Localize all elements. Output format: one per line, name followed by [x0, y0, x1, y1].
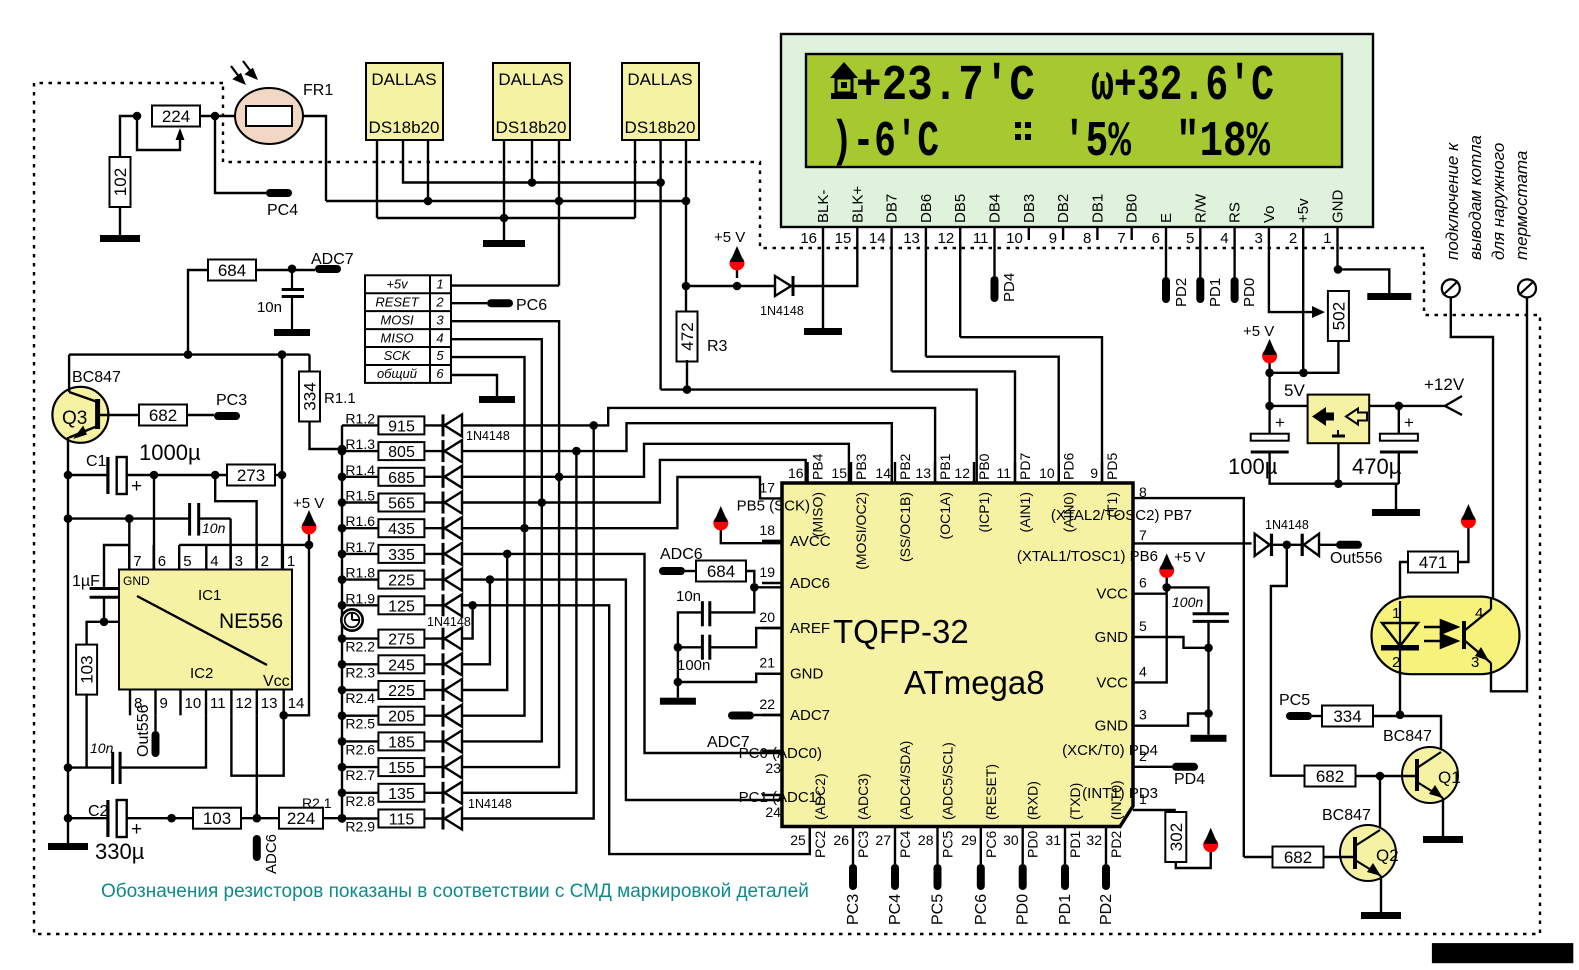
wire pin1 PD3 to 302 — [1133, 809, 1176, 811]
LCD pin 9 DB2 — [1049, 194, 1072, 247]
svg-text:273: 273 — [237, 466, 265, 485]
ATmega8 pin 32 PD2 — [1086, 780, 1124, 858]
node aref filter gnd1 — [674, 643, 683, 652]
svg-text:20: 20 — [759, 609, 775, 625]
ATmega8 pin 23 PC0 (ADC0) — [739, 745, 822, 776]
ATmega8 pin 30 PD0 — [1003, 781, 1041, 858]
svg-text:24: 24 — [765, 804, 781, 820]
svg-text:TQFP-32: TQFP-32 — [833, 613, 969, 650]
ground under 102 — [100, 235, 140, 242]
svg-text:MOSI: MOSI — [380, 312, 414, 327]
NE556 pin 7 — [128, 545, 130, 570]
ISP connector header — [365, 275, 451, 383]
ATmega8 pin 5 GND — [1095, 618, 1147, 646]
wire RS to PD0 — [1233, 240, 1235, 277]
wire MISO down to ladder — [451, 339, 542, 502]
DS18B20 sensor U4 box — [622, 63, 699, 140]
wire DS1 gnd pin — [376, 140, 378, 218]
wire R2.5 to diode — [424, 715, 443, 717]
node pair R1.8 — [486, 575, 495, 584]
ATmega8 pin 31 PD1 — [1045, 783, 1083, 858]
light arrows into FR1 — [231, 61, 256, 83]
svg-text:Q2: Q2 — [1376, 846, 1399, 865]
svg-text:30: 30 — [1003, 832, 1019, 848]
wire 682 to Q2 base — [1324, 856, 1355, 858]
wire terminal1 to opto pin4 — [1451, 297, 1493, 599]
node opto cathode junction — [1396, 711, 1405, 720]
svg-text:225: 225 — [388, 573, 415, 590]
terminal PD4 (LCD) — [991, 276, 999, 302]
terminal PD2 — [1102, 864, 1110, 890]
capacitor 1uF — [90, 589, 119, 598]
resistor 224 — [152, 106, 200, 127]
svg-text:C1: C1 — [86, 453, 107, 470]
wire stub pin 18 — [762, 540, 782, 542]
svg-text:PD2: PD2 — [1173, 278, 1190, 307]
wire stub pin 20 — [762, 627, 782, 629]
wire pin7 stub — [128, 519, 130, 570]
node pair R1.6 — [520, 524, 529, 533]
svg-text:225: 225 — [388, 683, 415, 700]
svg-text:PB1: PB1 — [937, 453, 953, 480]
svg-text:684: 684 — [707, 562, 735, 581]
resistor 334 (PC5) — [1322, 706, 1373, 727]
svg-text:103: 103 — [78, 655, 97, 683]
svg-text:472: 472 — [678, 322, 697, 350]
svg-text:RESET: RESET — [375, 294, 419, 309]
svg-text:(ICP1): (ICP1) — [976, 492, 992, 532]
ATmega8 pin 6 VCC — [1096, 575, 1147, 603]
svg-text:28: 28 — [918, 832, 934, 848]
node junction FR1 left — [211, 112, 220, 121]
svg-text:2: 2 — [261, 553, 269, 570]
svg-text:12: 12 — [938, 230, 955, 247]
diode 1N4148 to LCD backlight — [775, 276, 793, 296]
NE556 pin 6 — [152, 545, 154, 570]
svg-text:DALLAS: DALLAS — [498, 70, 563, 89]
wire DB5 to pin9 PD5 — [960, 337, 1102, 483]
wire R2.7 to diode — [424, 766, 443, 768]
wire C1 left — [68, 474, 108, 476]
svg-text:PC2: PC2 — [812, 831, 828, 858]
wire stub pin 19 — [762, 582, 782, 584]
terminal PD4 (ATmega) — [1172, 763, 1198, 771]
resistor R2.4 (225) — [342, 681, 424, 706]
svg-text:+5 V: +5 V — [1174, 549, 1205, 566]
wire 1uF top to pin7 — [104, 545, 129, 589]
wire 273 right — [275, 474, 282, 476]
wire R1.3 diode out — [462, 450, 576, 452]
svg-text:(XCK/T0) PD4: (XCK/T0) PD4 — [1062, 742, 1158, 759]
svg-text:4: 4 — [436, 330, 443, 345]
svg-text:(ADC3): (ADC3) — [855, 773, 871, 820]
resistor R2.3 (245) — [342, 655, 424, 680]
svg-text:PC3: PC3 — [855, 831, 871, 858]
wire R2.8 to diode — [424, 792, 443, 794]
svg-text:334: 334 — [1333, 707, 1361, 726]
ladder left rail — [341, 425, 343, 818]
black redaction bar — [1432, 943, 1573, 963]
wire 10n to pin3 — [199, 517, 231, 519]
svg-text:PD0: PD0 — [1015, 894, 1032, 925]
wire R1.6 to diode — [424, 527, 443, 529]
ATmega8 pin 20 AREF — [759, 609, 830, 637]
wire R1.1 top stub — [308, 355, 310, 372]
+5V arrow at 471 — [1461, 504, 1476, 536]
wire RESET to PC6 — [451, 302, 487, 304]
node ladder rail bottom — [338, 814, 347, 823]
wire 100n bottom down — [1207, 621, 1209, 734]
LCD house icon — [830, 62, 858, 99]
resistor 682 (Q2 base) — [1273, 847, 1324, 868]
svg-text:GND: GND — [1095, 718, 1129, 735]
svg-text:RS: RS — [1227, 202, 1244, 223]
LCD pin 6 E — [1152, 213, 1175, 247]
NE556 pin 10 — [179, 690, 181, 716]
wire VCC jog — [1165, 587, 1167, 593]
ATmega8 pin 26 PC3 — [833, 773, 871, 858]
wire 102 bottom to ground — [119, 205, 121, 235]
svg-text:DALLAS: DALLAS — [371, 70, 436, 89]
ATmega8 pin 22 ADC7 — [759, 696, 830, 724]
svg-text:PC1 (ADC1): PC1 (ADC1) — [739, 789, 822, 806]
LCD pin 13 DB6 — [903, 194, 935, 247]
wire BLK- to ground — [822, 240, 824, 328]
wire R2.8 riser — [462, 451, 576, 793]
svg-text:682: 682 — [1316, 767, 1344, 786]
wire pin5 GND — [1133, 637, 1209, 648]
svg-text:1N4148: 1N4148 — [468, 797, 512, 811]
svg-text:1: 1 — [1323, 230, 1331, 247]
wire DS1 vdd pin — [427, 140, 429, 201]
wire R1.9 diode out — [462, 604, 473, 606]
svg-text:(INT0): (INT0) — [1108, 780, 1124, 820]
svg-text:общий: общий — [377, 366, 417, 381]
ATmega8 pin 3 GND — [1095, 707, 1147, 735]
wire to PC4 terminal — [215, 116, 266, 193]
diode D1.7 1N4148 — [443, 543, 462, 565]
resistor R1.5 (565) — [342, 488, 424, 513]
wire DB6 down — [925, 240, 927, 357]
node C1 right junction — [150, 471, 159, 480]
ATmega8 pin 14 PB2 — [875, 453, 913, 562]
svg-text:13: 13 — [903, 230, 920, 247]
wire 103 to 224 — [240, 817, 279, 819]
wire R2.9 to diode — [424, 817, 443, 819]
svg-text:PB5 (SCK): PB5 (SCK) — [737, 497, 810, 514]
wire pin3 stub — [229, 519, 231, 570]
svg-text:подключение к: подключение к — [1443, 142, 1462, 260]
wire R2.3 to diode — [424, 663, 443, 665]
svg-text:R1.8: R1.8 — [345, 565, 375, 581]
wire Vo to 502 arrow — [1269, 240, 1313, 312]
wire to 103 top — [87, 622, 104, 646]
svg-text:7: 7 — [1139, 527, 1147, 543]
wire net R1.9 to pin25 PC2 — [473, 605, 810, 854]
wire R1.9 to diode — [424, 604, 443, 606]
LCD pin 7 DB0 — [1117, 194, 1140, 247]
node R1.1 rail junction — [338, 445, 347, 454]
ground ADC7 cap — [274, 329, 310, 336]
svg-text:4: 4 — [1220, 230, 1228, 247]
svg-text:ADC7: ADC7 — [790, 707, 830, 724]
terminal PC4 — [891, 864, 899, 890]
wire opto pin1 to 471 — [1400, 562, 1408, 599]
resistor 682 (Q1 base) — [1305, 766, 1356, 787]
wire diode junction to Q1 base resistor — [1271, 545, 1304, 776]
diode 1N4148 (from Out556) — [1302, 534, 1319, 556]
svg-text:502: 502 — [1329, 302, 1348, 330]
wire MOSI down to ladder — [451, 321, 559, 477]
svg-text:ADC7: ADC7 — [707, 734, 750, 751]
svg-text:330µ: 330µ — [95, 839, 145, 864]
wire 100n to pin20 AREF — [710, 628, 782, 647]
svg-text:PC3: PC3 — [216, 392, 247, 409]
svg-text:GND: GND — [123, 574, 150, 588]
node DS3 dq junction — [656, 178, 665, 187]
svg-text:565: 565 — [388, 496, 415, 513]
svg-text:471: 471 — [1419, 553, 1447, 572]
svg-text:'5%: '5% — [1063, 114, 1132, 171]
capacitor 470u — [1352, 413, 1418, 479]
svg-text:ADC6: ADC6 — [790, 575, 830, 592]
wire pin8 net to 682 — [1244, 856, 1272, 858]
node 556 Vcc junction — [305, 541, 314, 550]
svg-text:25: 25 — [790, 832, 806, 848]
node aref filter gnd2 — [674, 678, 683, 687]
node 273 right junction — [278, 471, 287, 480]
IC NE556 timer — [119, 570, 292, 691]
svg-text:R1.2: R1.2 — [345, 410, 375, 426]
capacitor 10n (556 bottom) — [113, 752, 120, 784]
svg-text:PD0: PD0 — [1025, 831, 1041, 858]
LCD pin 16 BLK- — [800, 190, 832, 247]
ATmega8 pin 28 PC5 — [918, 742, 956, 858]
svg-text:7: 7 — [133, 553, 141, 570]
svg-text:R1.6: R1.6 — [345, 513, 375, 529]
svg-text:Vcc: Vcc — [263, 673, 290, 690]
wire DB5 down — [959, 240, 961, 337]
svg-text:+: + — [1275, 413, 1285, 432]
node pair R1.4 — [555, 473, 564, 482]
svg-text:ADC6: ADC6 — [263, 834, 280, 874]
wire R1.7 diode out — [462, 553, 507, 555]
resistor 471 — [1408, 552, 1458, 573]
svg-text:+5 V: +5 V — [293, 495, 324, 512]
diode 1N4148 (from PB6) — [1255, 534, 1272, 556]
diode D1.3 1N4148 — [443, 440, 462, 462]
capacitor C2 330u — [108, 800, 142, 840]
svg-text:5: 5 — [436, 348, 444, 363]
node LCD gnd junction — [1334, 265, 1343, 274]
wire diode to LCD BLK+ — [793, 240, 857, 286]
svg-text:(MISO): (MISO) — [810, 492, 826, 537]
svg-text:DB7: DB7 — [884, 194, 901, 223]
clock icon — [341, 609, 362, 630]
resistor R3 472 — [677, 312, 698, 362]
resistor R1.6 (435) — [342, 513, 424, 538]
wire FR1 right down to +5V bus — [303, 116, 326, 201]
diode D2.5 1N4148 — [443, 705, 462, 727]
wire R2.2 riser — [462, 605, 473, 638]
svg-text:1µF: 1µF — [72, 573, 100, 590]
node 470u top — [1395, 402, 1404, 411]
svg-text:"18%: "18% — [1176, 114, 1271, 171]
node rail R2.4 — [338, 686, 347, 695]
svg-text:PC6: PC6 — [516, 297, 547, 314]
IC ATmega8 TQFP-32 — [782, 483, 1133, 827]
wire VCC to 100n — [1167, 587, 1209, 613]
resistor R1.2 (915) — [342, 410, 424, 435]
svg-text:DB5: DB5 — [952, 194, 969, 223]
svg-text:100n: 100n — [1172, 594, 1203, 610]
terminal PC3 — [849, 864, 857, 890]
svg-text:470µ: 470µ — [1352, 454, 1402, 479]
ATmega8 pin 1 (INT1) PD3 — [1082, 785, 1158, 807]
ATmega8 pin 25 PC2 — [790, 773, 828, 858]
LCD pin 5 R/W — [1186, 193, 1209, 247]
svg-text:BC847: BC847 — [1383, 728, 1432, 745]
optocoupler U3 — [1372, 597, 1520, 675]
wire reg input left — [1270, 405, 1308, 407]
resistor 273 — [227, 465, 275, 486]
node LCD+5v junction — [1299, 369, 1308, 378]
wire R2.4 riser — [462, 554, 507, 690]
wire GND bus — [377, 217, 635, 219]
resistor R2.1 224 — [279, 808, 323, 829]
svg-text:SCK: SCK — [384, 348, 412, 363]
node rail bottom 10n — [64, 763, 73, 772]
svg-text:16: 16 — [788, 465, 804, 481]
svg-text:3: 3 — [436, 312, 444, 327]
svg-text:+5v: +5v — [1295, 198, 1312, 223]
terminal circle output 2 — [1518, 279, 1536, 297]
svg-text:7: 7 — [1117, 230, 1125, 247]
ground LCD — [1367, 293, 1411, 300]
svg-text:R1.1: R1.1 — [324, 390, 356, 407]
wire pin9 to Out556 — [154, 715, 156, 731]
wire net R1.7 to pin23 PC0 — [507, 554, 782, 753]
ground power supply — [1372, 509, 1420, 516]
wire R1.8 diode out — [462, 578, 490, 580]
wire +5V down to pin14 — [284, 545, 309, 715]
node rail 10n — [64, 514, 73, 523]
wire ADC6 term to 684 — [685, 570, 696, 572]
svg-text:GND: GND — [1095, 629, 1129, 646]
node Q1 base junction — [1376, 772, 1385, 781]
ATmega8 pin 17 PB5 (SCK) — [737, 479, 810, 514]
ATmega8 pin 11 PD7 — [996, 453, 1033, 533]
wire PD0 stub — [1022, 847, 1024, 864]
svg-text:R2.3: R2.3 — [345, 664, 375, 680]
svg-text:9: 9 — [160, 695, 168, 712]
resistor R2.2 (275) — [342, 630, 424, 655]
diode D1.8 1N4148 — [443, 569, 462, 591]
svg-text:6: 6 — [1152, 230, 1160, 247]
svg-text:Vo: Vo — [1261, 205, 1278, 223]
diode D2.4 1N4148 — [443, 679, 462, 701]
+5V arrow NE556 — [302, 510, 317, 542]
svg-text:5: 5 — [183, 553, 191, 570]
wire PC6 stub — [980, 847, 982, 864]
wire C1 to 556 pin6 — [153, 475, 155, 570]
NE556 pin 12 — [230, 690, 232, 716]
node reg gnd rail — [1334, 479, 1343, 488]
node VCC junction — [1162, 583, 1171, 592]
svg-text:224: 224 — [287, 809, 315, 828]
ground AREF filter — [660, 698, 696, 705]
svg-text:PC6: PC6 — [983, 831, 999, 858]
svg-text:27: 27 — [875, 832, 891, 848]
svg-text:MISO: MISO — [380, 330, 413, 345]
svg-text:3: 3 — [1139, 707, 1147, 723]
svg-text:10n: 10n — [90, 740, 114, 756]
wire Q1 base to Q2 collector — [1379, 776, 1381, 827]
svg-text:1N4148: 1N4148 — [1265, 518, 1309, 532]
svg-text:R2.4: R2.4 — [345, 690, 375, 706]
node gnd junction 1 — [1204, 644, 1213, 653]
resistor 102 — [110, 157, 131, 207]
svg-text:E: E — [1158, 213, 1175, 223]
node pair R1.2 — [589, 421, 598, 430]
terminal PC4 — [266, 189, 292, 197]
wire down to 556 pin2 — [215, 475, 256, 570]
svg-text:DS18b20: DS18b20 — [496, 118, 567, 137]
svg-text:5V: 5V — [1284, 381, 1305, 400]
svg-text:1N4148: 1N4148 — [760, 304, 804, 318]
svg-text:5: 5 — [1186, 230, 1194, 247]
wire 556 pin13 down — [256, 715, 258, 818]
svg-text:R1.4: R1.4 — [345, 462, 375, 478]
opto light arrows — [1424, 621, 1457, 648]
wire to gnd symbol — [1338, 269, 1389, 293]
node regulator in-left — [1265, 402, 1274, 411]
LCD pin 2 +5v — [1289, 198, 1312, 247]
wire 302 to +5V — [1176, 846, 1211, 868]
wire DS2 vdd pin down to ISP +5v — [558, 140, 560, 286]
resistor R1.7 (335) — [342, 539, 424, 564]
node pin14 junction — [279, 711, 288, 720]
node DS2 vdd junction — [555, 197, 564, 206]
svg-text:(XTAL1/TOSC1) PB6: (XTAL1/TOSC1) PB6 — [1017, 548, 1158, 565]
svg-text:+: + — [1404, 413, 1414, 432]
svg-text:Out556: Out556 — [1330, 550, 1383, 567]
node C2 right junction — [167, 814, 176, 823]
node rail R1.7 — [338, 550, 347, 559]
svg-text:PD5: PD5 — [1104, 453, 1120, 480]
ATmega8 pin 21 GND — [759, 655, 823, 683]
svg-text:3: 3 — [235, 553, 243, 570]
terminal ADC7 — [315, 265, 341, 273]
wire DS2 gnd pin — [503, 140, 505, 218]
svg-text:(ADC4/SDA): (ADC4/SDA) — [897, 741, 913, 820]
capacitor 10n (556 top) — [190, 503, 199, 536]
ground Q2 — [1361, 912, 1401, 919]
capacitor 10n (AREF filter) — [702, 601, 709, 626]
capacitor 10n (ADC7) — [282, 269, 304, 329]
node +5V arrow junction — [733, 282, 742, 291]
svg-text:PD4: PD4 — [1001, 273, 1018, 302]
svg-text:IC2: IC2 — [190, 665, 213, 682]
wire stub pin 24 — [762, 794, 782, 796]
wire stub pin 23 — [762, 750, 782, 752]
svg-text:103: 103 — [203, 809, 231, 828]
svg-text:435: 435 — [388, 521, 415, 538]
wire pin2 to PD4 — [1133, 766, 1172, 768]
svg-text:R2.9: R2.9 — [345, 819, 375, 835]
LCD pin 14 DB7 — [869, 194, 901, 247]
wire ADC7 to pin22 — [754, 714, 782, 716]
